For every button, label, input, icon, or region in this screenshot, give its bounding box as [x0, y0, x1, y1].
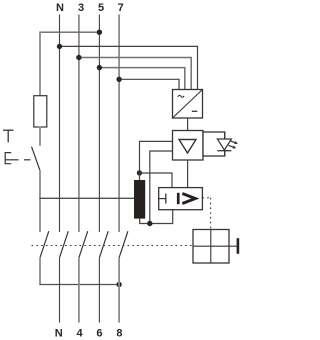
- op-amp triangle symbol: [179, 140, 196, 154]
- test switch blade: [32, 147, 40, 171]
- wire supply tap 7 to rectifier: [119, 79, 179, 89]
- wire CT bottom terminal: [140, 210, 173, 224]
- dotted link I> detector to trip coil: [202, 197, 210, 199]
- wire primary conductors through CT core: [39, 197, 134, 199]
- wire 7 vertical: [118, 15, 120, 233]
- wire supply tap 5 to rectifier: [99, 68, 184, 90]
- svg-text:4: 4: [76, 328, 83, 340]
- wire 5 vertical: [98, 15, 100, 233]
- wire 6 lower: [98, 258, 100, 323]
- label I of I> symbol: [177, 193, 180, 204]
- LED emission arrow 1: [230, 141, 235, 143]
- wire N lower: [59, 258, 61, 323]
- wire N vertical: [59, 15, 61, 233]
- node tap on wire 7: [116, 77, 121, 82]
- capacitor plate symbol inside I> box: [159, 198, 166, 200]
- rectifier AC symbol ~: [178, 95, 184, 97]
- svg-text:N: N: [55, 328, 63, 340]
- wire 8 lower: [118, 258, 120, 323]
- trip coil / release mechanism box: [193, 230, 229, 264]
- wire supply tap 3 to rectifier: [79, 58, 191, 90]
- svg-text:6: 6: [96, 328, 102, 340]
- svg-text:5: 5: [98, 2, 104, 14]
- rectifier DC symbol minus: [192, 110, 198, 112]
- LED indicator box: [203, 132, 225, 156]
- node test return on wire 8: [116, 282, 121, 287]
- svg-text:8: 8: [116, 328, 122, 340]
- LED cathode bar: [217, 150, 231, 152]
- wire supply tap N to rectifier: [60, 46, 198, 89]
- rectifier diagonal: [173, 90, 203, 119]
- label T test button: [3, 129, 13, 131]
- svg-text:3: 3: [78, 2, 84, 14]
- contact blade pole N: [60, 231, 69, 258]
- wire test switch down to test contact: [39, 170, 41, 232]
- wire test circuit return to wire 8: [39, 284, 119, 286]
- node tap on wire 3: [76, 55, 81, 60]
- wire rectifier output to amplifier: [187, 118, 189, 131]
- wire resistor to test switch: [39, 127, 41, 146]
- test push button actuator: [5, 153, 11, 164]
- contact blade pole 5-6: [99, 231, 108, 258]
- resistor R test: [34, 96, 47, 127]
- node tap on wire 5: [97, 65, 102, 70]
- trip box horizontal midline: [193, 245, 229, 247]
- label > of I> symbol: [182, 194, 195, 204]
- current detector I> box: [159, 188, 203, 210]
- mechanical linkage dotted line across contacts: [32, 245, 194, 247]
- wire amplifier output to I-detector: [187, 160, 189, 188]
- wire CT top junction to I-detector: [140, 173, 173, 188]
- wire trip box to armature: [229, 245, 238, 247]
- svg-text:N: N: [56, 2, 64, 14]
- wire test contact lower stub: [39, 258, 41, 285]
- LED axis wire upper: [224, 132, 226, 139]
- svg-text:7: 7: [118, 2, 124, 14]
- contact blade test pole: [40, 231, 49, 258]
- wire 3 vertical: [78, 15, 80, 233]
- node CT top junction: [137, 170, 142, 175]
- wire test tap from wire 5 to test resistor branch: [39, 31, 99, 33]
- wire CT top to amplifier input A: [140, 141, 173, 173]
- LED axis wire lower: [224, 151, 226, 156]
- contact blade pole 3-4: [79, 231, 88, 258]
- wire 4 lower: [78, 258, 80, 323]
- test button stem (mechanical link): [5, 159, 18, 161]
- op-amp U2 box: [173, 131, 204, 161]
- node CT bottom junction: [147, 221, 152, 226]
- node tap on wire N: [57, 44, 62, 49]
- wire CT top terminal: [139, 173, 141, 180]
- wire CT bottom to amplifier input B: [150, 151, 173, 224]
- LED emission arrow 2: [229, 145, 234, 147]
- LED D1: [217, 139, 231, 150]
- current transformer CT core: [134, 180, 145, 219]
- trip box vertical midline: [210, 230, 212, 264]
- contact blade pole 7-8: [119, 231, 128, 258]
- rectifier U1 box: [173, 90, 203, 119]
- armature bar: [237, 238, 240, 254]
- node test tap on wire 5: [97, 30, 102, 35]
